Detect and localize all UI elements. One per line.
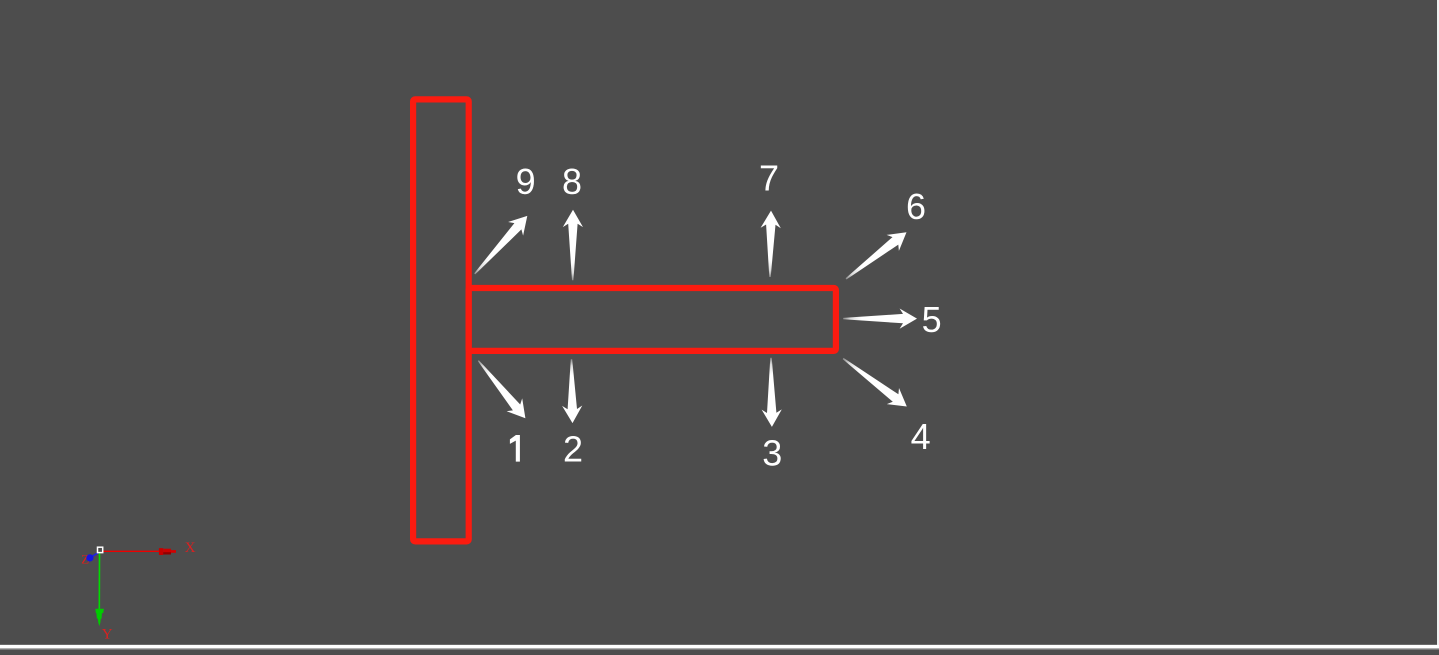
face arrow 4 bbox=[843, 358, 907, 407]
face arrow 8 bbox=[563, 210, 583, 281]
triad X axis arrowhead shading bbox=[163, 552, 171, 554]
face arrow 3 bbox=[762, 358, 782, 427]
triad X axis line bbox=[102, 550, 161, 552]
right window edge highlight bbox=[1437, 0, 1439, 645]
part: horizontal plate outline bbox=[469, 288, 836, 351]
triad X axis arrowhead block 3 bbox=[171, 550, 176, 553]
face arrow 7 bbox=[761, 211, 781, 277]
triad Z axis dot bbox=[86, 554, 93, 561]
svg-text:X: X bbox=[185, 540, 196, 556]
svg-text:6: 6 bbox=[906, 186, 926, 227]
svg-text:5: 5 bbox=[922, 299, 942, 340]
svg-text:Y: Y bbox=[102, 627, 113, 643]
triad origin marker bbox=[98, 547, 103, 552]
svg-text:7: 7 bbox=[759, 158, 779, 199]
svg-text:4: 4 bbox=[911, 416, 931, 457]
svg-text:8: 8 bbox=[562, 161, 582, 202]
face arrow 2 bbox=[562, 359, 582, 423]
triad Z axis stub bbox=[91, 553, 99, 558]
face arrow 9 bbox=[474, 216, 527, 275]
face label 1 (custom glyph, no-foot "1") bbox=[510, 435, 520, 462]
bottom window edge highlight bbox=[0, 644, 1439, 645]
face arrow 5 bbox=[843, 309, 917, 329]
triad X axis arrowhead block 2 bbox=[163, 549, 171, 555]
triad Y axis arrowhead bbox=[95, 609, 104, 627]
svg-text:9: 9 bbox=[516, 161, 536, 202]
face arrow 1 bbox=[478, 360, 526, 418]
triad X axis arrowhead block 1 bbox=[159, 548, 163, 555]
svg-text:3: 3 bbox=[762, 432, 782, 473]
svg-text:2: 2 bbox=[563, 429, 583, 470]
part: vertical plate outline bbox=[413, 99, 469, 541]
triad Y axis line bbox=[98, 553, 100, 611]
face arrow 6 bbox=[846, 232, 907, 279]
